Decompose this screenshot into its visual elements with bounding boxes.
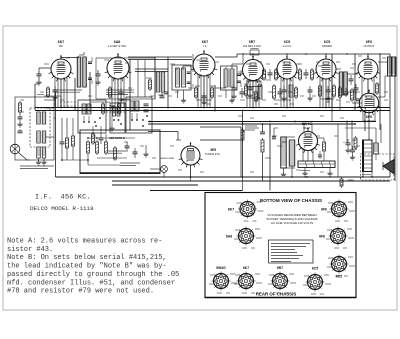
resistor R30 ant xyxy=(19,103,22,112)
tube V2 6A8 converter xyxy=(107,57,129,79)
capacitor C21 xyxy=(133,151,138,153)
chassis box bottom edge xyxy=(205,297,356,299)
ground C9 xyxy=(283,96,285,98)
dashed switch lines xyxy=(60,101,78,103)
wire antenna lead xyxy=(39,67,51,69)
resistor R20 xyxy=(323,142,326,151)
antenna box label xyxy=(37,94,44,96)
tiny text mid block xyxy=(265,157,271,159)
resistor R35 xyxy=(66,138,69,148)
wire if out down xyxy=(214,85,216,110)
capacitor C28b xyxy=(18,130,23,132)
resistor R23 xyxy=(96,142,99,153)
svg-text:6K7: 6K7 xyxy=(228,208,234,212)
wire T3 top leads xyxy=(225,67,227,69)
osc components xyxy=(102,104,105,113)
resistor R8 xyxy=(263,70,266,79)
svg-text:6F6: 6F6 xyxy=(366,40,372,44)
svg-text:+: + xyxy=(343,140,345,144)
ground C24 xyxy=(249,93,251,95)
tube V5 6C5 first audio xyxy=(277,59,297,79)
tube V7 6F6 output 1 xyxy=(358,59,378,79)
wire under v1 horizontals xyxy=(44,95,61,97)
ground C31 xyxy=(54,95,56,97)
wire het connectors xyxy=(90,101,110,103)
resistor R3 xyxy=(109,88,112,97)
svg-text:1 st A.F.: 1 st A.F. xyxy=(282,44,292,48)
candohm resistor R21 xyxy=(298,161,335,168)
wire eye grid line xyxy=(200,139,241,141)
socket V3 6K7 xyxy=(239,274,254,289)
electrolytic C18 xyxy=(346,142,351,144)
resistor R34 vc xyxy=(241,130,244,140)
label part 2 xyxy=(146,77,152,79)
wire T1 top xyxy=(79,54,84,56)
capacitor C6 xyxy=(202,95,207,97)
wire grid elbows xyxy=(117,54,119,57)
resistor R32 xyxy=(340,179,343,186)
capacitor C32 xyxy=(240,91,245,93)
socket V2 6A8 xyxy=(239,229,254,244)
bandswitch coil L4 xyxy=(82,104,86,114)
wire bottom bus 3 xyxy=(112,184,198,186)
bandswitch coil box 2 xyxy=(126,97,152,133)
wire elec feeds xyxy=(346,122,348,144)
wire bus mid 1 xyxy=(148,121,376,123)
capacitor C9 xyxy=(282,89,287,91)
resistor R13 xyxy=(319,86,322,96)
wire T2 bottom leads xyxy=(177,90,179,98)
antenna coil inner dashed box xyxy=(30,108,50,147)
bandswitch coil L8 xyxy=(113,107,116,116)
capacitor C7 xyxy=(232,87,237,89)
label R21 xyxy=(300,170,310,172)
wire bottom bus 1 xyxy=(56,176,391,178)
capacitor C34 xyxy=(308,89,313,91)
svg-text:6A8: 6A8 xyxy=(226,235,232,239)
coil plate choke L7 xyxy=(289,85,293,97)
wire T2 top leads xyxy=(176,68,178,70)
wires rect pin drops xyxy=(302,148,304,161)
osc shield box xyxy=(96,58,155,99)
resistor R18 xyxy=(376,84,379,93)
svg-text:I.F. 456 KC.: I.F. 456 KC. xyxy=(35,194,91,202)
wire det line pair a xyxy=(135,68,168,70)
svg-text:TUNING EYE: TUNING EYE xyxy=(205,153,220,156)
svg-text:GREEN WIRE: GREEN WIRE xyxy=(160,158,175,160)
wire v7 v8 link xyxy=(367,79,369,93)
wire far right vertical xyxy=(394,57,396,181)
svg-text:6R7: 6R7 xyxy=(249,40,256,44)
svg-text:the lead indicated by "Note B": the lead indicated by "Note B" was by- xyxy=(7,263,167,271)
wire det line pair b xyxy=(135,71,168,73)
tube V6 6C5 driver xyxy=(316,59,336,79)
wire ps horizontals xyxy=(345,127,376,129)
wire osc left down xyxy=(129,60,131,131)
wire winding ties xyxy=(281,136,296,138)
capacitor C24 xyxy=(248,87,253,89)
svg-text:2nd DET & AVC: 2nd DET & AVC xyxy=(243,44,261,48)
svg-text:6K7: 6K7 xyxy=(243,266,249,270)
wire V2 cathode down xyxy=(117,79,119,107)
svg-text:6C5: 6C5 xyxy=(336,275,342,279)
phono caption text xyxy=(120,162,140,164)
label part 4 xyxy=(244,83,249,85)
wire V1 screen down xyxy=(74,78,76,110)
capacitor C4 xyxy=(119,91,124,93)
antenna coil L1a xyxy=(37,112,41,124)
chassis view box xyxy=(205,193,356,298)
capacitor C10 xyxy=(304,72,309,74)
ground C7 xyxy=(233,94,235,96)
capacitor C14 xyxy=(260,131,265,133)
svg-text:6C5: 6C5 xyxy=(284,40,291,44)
wire coil box ties xyxy=(54,103,56,105)
wire box inner drops xyxy=(92,126,94,134)
resistor R5 xyxy=(195,88,198,97)
wire osc line pair a xyxy=(128,56,192,58)
svg-text:OUTPUT: OUTPUT xyxy=(364,44,375,48)
ground C2 xyxy=(97,80,99,82)
wire plate to OT xyxy=(378,61,388,63)
svg-text:6C5: 6C5 xyxy=(324,40,331,44)
socket V4 6R7 xyxy=(273,274,288,289)
svg-text:Note B: On sets below serial: Note B: On sets below serial #415,215, xyxy=(7,254,167,262)
wire eye feed xyxy=(148,131,178,133)
bandswitch coil box 3 xyxy=(110,103,125,133)
wire V5 cathode down xyxy=(286,79,288,107)
resistor R40 diode load xyxy=(250,50,259,55)
svg-text:passed directly to ground thro: passed directly to ground through the .0… xyxy=(7,271,179,279)
wire T5 leads xyxy=(336,68,341,70)
ground C18 xyxy=(347,148,349,150)
svg-text:Note A: 2.6 volts measures ac: Note A: 2.6 volts measures across re- xyxy=(7,238,162,246)
box junction dots xyxy=(87,137,89,139)
wire B+ bus upper xyxy=(35,107,390,109)
resistor R7b boxed xyxy=(247,81,261,87)
socket V6 6C5 xyxy=(332,257,347,272)
antenna coil L1c xyxy=(37,147,41,158)
wire T3 bottom leads xyxy=(225,90,227,98)
wire ot primary down xyxy=(379,54,381,130)
wire V6 cathode down xyxy=(325,79,327,107)
capacitor C29 xyxy=(272,136,276,138)
wire V1 cathode down xyxy=(60,80,62,108)
wire V4 cathode down xyxy=(252,81,254,108)
antenna coil outer box xyxy=(15,97,54,160)
IF transformer T2 windings xyxy=(176,68,180,87)
svg-text:sistor #43.: sistor #43. xyxy=(7,246,53,254)
wire speaker ties xyxy=(368,111,370,141)
wire osc line pair b xyxy=(128,59,192,61)
resistor R31 xyxy=(354,138,357,148)
socket V1 6K7 xyxy=(240,202,255,217)
wire vc link xyxy=(243,130,246,132)
wire junction dots xyxy=(60,107,62,109)
IF transformer T2 trimmers xyxy=(187,71,191,73)
capacitor C36 xyxy=(60,141,65,143)
wire shield right xyxy=(167,57,169,107)
resistor R37 xyxy=(92,134,95,143)
speaker label xyxy=(362,174,371,176)
wire bottom connect xyxy=(242,177,244,191)
driver transformer T5 xyxy=(339,72,343,95)
resistor R7 xyxy=(245,86,248,95)
wire b right down xyxy=(389,54,391,177)
svg-text:6E5: 6E5 xyxy=(211,148,217,152)
capacitor C35 xyxy=(354,87,359,89)
IF transformer T3 windings xyxy=(224,69,228,87)
tube V1 6K7 RF amplifier xyxy=(51,59,71,79)
ground C19 xyxy=(352,155,354,157)
tuning unit box xyxy=(80,130,160,174)
svg-text:mfd. condenser Illus. #51, and: mfd. condenser Illus. #51, and condenser xyxy=(7,279,175,287)
socket V8 6F6 xyxy=(331,229,346,244)
ground C6 xyxy=(203,100,205,102)
capacitor C23 xyxy=(160,95,165,97)
svg-text:6R7: 6R7 xyxy=(277,266,283,270)
field winding W2 xyxy=(289,140,295,166)
speaker cone xyxy=(383,160,394,175)
capacitor C31 xyxy=(53,89,58,91)
capacitor C2 avc xyxy=(96,73,101,75)
ground antenna xyxy=(38,80,40,82)
volume control text xyxy=(245,125,257,127)
svg-text:6K7: 6K7 xyxy=(58,40,65,44)
bandswitch wafer dots 1 xyxy=(83,121,85,123)
wire inv down xyxy=(331,54,333,107)
tube V3 6K7 IF amplifier xyxy=(193,54,215,76)
wire out k down xyxy=(354,54,356,110)
tube V4 6R7 2nd detector xyxy=(243,60,264,81)
svg-text:REAR OF CHASSIS: REAR OF CHASSIS xyxy=(256,292,297,297)
wire grid bus top right xyxy=(237,53,390,55)
capacitor C12 xyxy=(349,78,354,80)
IF transformer T3 trimmers xyxy=(237,73,241,75)
wire rect right xyxy=(318,137,325,139)
resistor R11 xyxy=(299,70,302,79)
wire vc down xyxy=(242,111,244,178)
tone control text xyxy=(108,150,126,152)
ground coil leads xyxy=(38,160,40,162)
osc coil windings xyxy=(156,72,160,92)
wire heater bus xyxy=(35,110,390,112)
note dashed lines text xyxy=(54,89,82,91)
capacitor C27 ant xyxy=(18,116,23,118)
wire V3 cathode down xyxy=(203,76,205,107)
ground W1 xyxy=(283,172,285,174)
svg-text:I.F.: I.F. xyxy=(203,44,207,48)
wire mid connectors xyxy=(215,87,226,89)
field winding W1 xyxy=(281,137,287,168)
capacitor C13 xyxy=(356,98,360,100)
bandswitch wafer dots 2 xyxy=(131,119,133,121)
svg-text:AC LINE VOLTAGE 115 VOLTS: AC LINE VOLTAGE 115 VOLTS xyxy=(271,221,313,225)
trimmer caps osc xyxy=(144,103,149,105)
resistor R24 xyxy=(105,142,108,153)
resistor R12 xyxy=(311,70,314,79)
osc grounds xyxy=(111,126,113,128)
ground R21 leads xyxy=(304,168,306,172)
svg-text:DELCO MODEL R-1118: DELCO MODEL R-1118 xyxy=(30,205,94,212)
wire antenna down xyxy=(34,84,36,110)
svg-text:6F6: 6F6 xyxy=(319,235,325,239)
resistor R9 xyxy=(275,70,278,79)
svg-text:#78 and resistor #79 were not: #78 and resistor #79 were not used. xyxy=(7,288,154,296)
svg-text:6F6: 6F6 xyxy=(321,208,327,212)
capacitor C5 xyxy=(164,91,169,93)
wire osc area verticals xyxy=(137,60,139,97)
ground C27 xyxy=(19,122,21,124)
socket V7 6F6 xyxy=(332,202,347,217)
ground C34 xyxy=(309,96,311,98)
svg-text:6C5: 6C5 xyxy=(312,267,318,271)
caption condenser mounting xyxy=(20,165,54,167)
tuning box bottom heavy xyxy=(80,172,160,174)
resistor R10 xyxy=(273,86,276,98)
power transformer T6 secondary xyxy=(374,143,379,154)
resistor R26 xyxy=(255,92,258,101)
wire shield left xyxy=(154,57,156,99)
wire v1 grid top xyxy=(60,56,62,59)
wire bottom bus 4 xyxy=(150,190,243,192)
note switch rear text xyxy=(106,89,132,91)
resistor R6 xyxy=(211,88,214,97)
capacitor C20 xyxy=(125,145,130,147)
resistor R27 xyxy=(295,88,298,97)
resistor R22 xyxy=(87,142,90,153)
wire phase inv xyxy=(331,107,333,122)
svg-text:1 st DET & OSC: 1 st DET & OSC xyxy=(108,44,127,48)
capacitor C33 xyxy=(278,91,283,93)
power transformer T6 primary xyxy=(362,140,364,173)
wire lamp lead xyxy=(18,152,27,160)
wire if2 top link xyxy=(215,56,237,58)
capacitor C26 xyxy=(344,91,349,93)
ground C4 xyxy=(120,97,122,99)
wire right mid down xyxy=(364,111,366,132)
wire af down xyxy=(269,124,271,191)
resistor R25 xyxy=(114,148,117,159)
wire bus mid 2 xyxy=(148,123,355,125)
svg-text:5W4G: 5W4G xyxy=(216,266,226,270)
wire node a down xyxy=(89,72,91,107)
resistor R4 xyxy=(149,80,152,89)
wires output pin drops xyxy=(361,77,363,107)
resistor R29 xyxy=(339,88,342,97)
resistor R19 xyxy=(261,140,264,152)
capacitor C8 xyxy=(268,72,273,74)
capacitor C37 xyxy=(99,137,104,139)
wire R19 down xyxy=(262,154,264,181)
label part 3 xyxy=(195,85,200,87)
svg-text:BOTTOM VIEW OF CHASSIS: BOTTOM VIEW OF CHASSIS xyxy=(260,198,322,203)
bandswitch coil L5 xyxy=(130,101,134,111)
capacitor C1 antenna xyxy=(37,73,42,75)
wire eye down xyxy=(190,165,192,178)
ground C11 xyxy=(327,96,329,98)
svg-text:RECT.: RECT. xyxy=(303,126,311,130)
svg-text:6A8: 6A8 xyxy=(114,40,121,44)
wires tube pin drops xyxy=(54,78,56,108)
tube V8 6F6 output 2 xyxy=(359,93,378,112)
capacitor C11 xyxy=(326,89,331,91)
output transformer T4 xyxy=(388,57,392,76)
wire box internal xyxy=(88,137,135,139)
ground in box xyxy=(145,152,147,154)
wire left col xyxy=(55,92,57,177)
bandswitch coil box 1 xyxy=(78,100,106,133)
svg-text:6K7: 6K7 xyxy=(202,40,209,44)
electrolytic C19 xyxy=(350,149,355,151)
tube V9 5W4G rectifier xyxy=(299,132,318,151)
rf transformer T1 trimmer xyxy=(88,61,92,63)
capacitor C30 xyxy=(318,154,322,156)
antenna coil L1b xyxy=(37,131,41,143)
resistor R14 xyxy=(333,86,336,96)
socket V5 6C5 xyxy=(308,275,323,290)
resistor R36 xyxy=(72,136,75,146)
svg-text:DRIVER: DRIVER xyxy=(322,44,332,48)
tiny part number labels xyxy=(44,63,49,65)
socket V9 5W4G xyxy=(214,274,229,289)
wire bottom bus 2 xyxy=(112,180,390,182)
resistor R33 xyxy=(47,88,50,96)
speaker dashed box xyxy=(361,154,395,180)
wire mid block feeds xyxy=(262,124,264,132)
chassis cable table xyxy=(269,240,314,263)
pilot lamp P1 xyxy=(10,144,20,154)
resistor R17 xyxy=(351,90,354,100)
tube V10 6E5 tuning eye xyxy=(181,146,200,165)
svg-text:RF: RF xyxy=(59,44,63,48)
dial lamp xyxy=(161,166,168,173)
rf transformer T1 windings xyxy=(77,57,81,87)
wire left osc drops xyxy=(61,118,63,136)
coil choke L6 xyxy=(258,85,262,99)
